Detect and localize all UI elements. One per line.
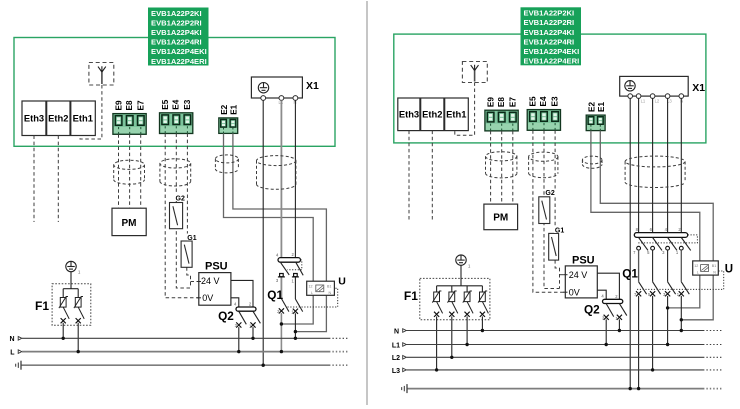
node Q2-N — [251, 337, 254, 340]
surge arrester F1 — [35, 261, 91, 325]
wire X1 PE down to PE bar — [629, 98, 631, 388]
net L busbar — [10, 350, 348, 357]
X1 terminal L1 — [279, 96, 284, 101]
enclosure box (charging station) — [14, 38, 335, 147]
node F1-L1 — [465, 343, 468, 346]
enclosure box (charging station) — [394, 34, 706, 143]
svg-text:4: 4 — [276, 252, 279, 257]
svg-text:E2: E2 — [588, 102, 597, 112]
svg-text:12: 12 — [694, 264, 698, 268]
wire E3 dashed to G1 — [186, 134, 188, 242]
net N busbar — [9, 336, 348, 343]
svg-text:3: 3 — [276, 278, 279, 283]
X1 outlet box — [251, 77, 319, 98]
ferrite ring on E9-E7 cable — [114, 160, 145, 184]
wire Eth2 dashed drop — [431, 131, 433, 221]
antenna (dashed enclosure) — [89, 63, 114, 86]
net N busbar — [394, 328, 723, 335]
wire E1 sense (gray) to Q1 downstream N — [600, 131, 713, 320]
svg-text:EVB1A22P2RI: EVB1A22P2RI — [151, 18, 202, 27]
svg-text:PM: PM — [493, 213, 508, 224]
wire F1 left pole to N bar — [62, 323, 64, 339]
svg-text:G2: G2 — [176, 196, 185, 203]
svg-text:Eth2: Eth2 — [422, 109, 442, 120]
ferrite ring on X1 cable — [257, 156, 296, 190]
node Q2-L — [237, 350, 240, 353]
wire PSU 0V to Q2 — [231, 298, 239, 307]
wire Q2 right pole to N bar — [618, 319, 620, 330]
wire PSU 24V to Q2 — [231, 280, 253, 307]
node F1-N — [481, 329, 484, 332]
transformer G2 — [539, 189, 557, 224]
svg-text:L: L — [10, 350, 15, 357]
wire Q1 right pole to N bar — [294, 313, 296, 338]
wire PSU 24V to Q2 — [597, 273, 619, 299]
svg-text:L: L — [311, 291, 313, 295]
svg-text:L2: L2 — [655, 99, 660, 104]
surge arrester F1 (4-pole) — [404, 255, 490, 320]
svg-text:1: 1 — [291, 279, 294, 284]
wire E7 dashed to PM — [140, 134, 142, 208]
svg-text:Eth3: Eth3 — [399, 109, 419, 120]
X1 outlet box — [620, 76, 706, 96]
wire Q1 pole2 to L3 bar — [652, 296, 654, 370]
svg-text:E5: E5 — [161, 99, 170, 109]
net L2 busbar — [392, 355, 723, 362]
svg-text:L: L — [697, 271, 699, 275]
X1 terminal N — [293, 96, 298, 101]
antenna (dashed enclosure) — [462, 62, 487, 83]
svg-text:2: 2 — [249, 302, 252, 307]
PSU box — [563, 254, 597, 298]
X1 terminal PE — [261, 96, 266, 101]
wire E9 dashed to PM — [490, 131, 492, 204]
net L3 busbar — [392, 368, 723, 375]
wire antenna to Eth1 dashed — [455, 82, 475, 135]
node Q1 pole4 tap — [680, 318, 683, 321]
svg-text:24 V: 24 V — [201, 276, 220, 286]
svg-text:E9: E9 — [114, 100, 123, 110]
svg-text:Eth3: Eth3 — [24, 113, 44, 124]
node Q1 pole4 N — [680, 329, 683, 332]
svg-text:3: 3 — [662, 250, 665, 255]
ferrite ring on E5-E3 cable — [529, 152, 558, 178]
wire Q1 left pole to L bar (gray) — [280, 313, 282, 352]
breaker Q1 (4-pole RCD) — [622, 227, 697, 297]
svg-text:Eth2: Eth2 — [48, 113, 68, 124]
node Q2-N — [618, 329, 621, 332]
model label EVB1A22 list — [521, 7, 582, 65]
wire X1 N down to Q1 — [294, 100, 296, 257]
svg-text:EVB1A22P4KI: EVB1A22P4KI — [151, 28, 202, 37]
svg-text:G1: G1 — [555, 228, 564, 235]
svg-text:U: U — [338, 276, 346, 288]
svg-text:E1: E1 — [597, 102, 606, 112]
svg-text:Eth1: Eth1 — [73, 113, 93, 124]
svg-text:EVB1A22P4RI: EVB1A22P4RI — [524, 37, 575, 46]
wire Q2 left pole to L bar — [238, 327, 240, 352]
wire E1 sense (gray) to Q1 downstream right — [233, 133, 327, 331]
svg-text:E9: E9 — [486, 97, 495, 107]
svg-text:PM: PM — [122, 218, 137, 229]
svg-text:X1: X1 — [306, 80, 319, 92]
model label EVB1A22 list — [148, 8, 209, 66]
wire X1 L2 to Q1 — [652, 98, 654, 232]
svg-text:X1: X1 — [692, 82, 705, 94]
svg-text:EVB1A22P4ERI: EVB1A22P4ERI — [524, 57, 580, 66]
svg-text:PSU: PSU — [572, 254, 595, 266]
svg-text:E2: E2 — [220, 104, 229, 114]
node Q2-L1 — [605, 343, 608, 346]
wire G1 to PSU 24V dashed — [187, 267, 191, 288]
remote control module U — [693, 261, 733, 276]
svg-text:2: 2 — [615, 294, 618, 299]
svg-text:Eth1: Eth1 — [446, 109, 466, 120]
node F1-L3 — [435, 368, 438, 371]
transformer G1 — [549, 226, 567, 260]
wire Eth2 dashed drop — [57, 136, 59, 223]
svg-text:E4: E4 — [539, 96, 548, 106]
wire E9 dashed to PM — [118, 134, 120, 208]
wire antenna to Eth1 dashed — [80, 85, 102, 139]
X1 terminal L1 — [636, 94, 641, 99]
svg-text:Q1: Q1 — [267, 288, 283, 302]
terminal block E9 E8 E7 — [113, 114, 146, 135]
X1 terminal PE — [628, 94, 633, 99]
svg-text:E3: E3 — [551, 96, 560, 106]
node Q1 left tap — [280, 322, 283, 325]
svg-text:4: 4 — [601, 294, 604, 299]
PM box (power meter) — [112, 208, 146, 235]
svg-text:U: U — [725, 264, 733, 276]
node Q1 pole1 PE — [637, 387, 640, 390]
svg-text:PSU: PSU — [205, 261, 228, 273]
node F1-L — [77, 350, 80, 353]
panel divider — [366, 1, 368, 405]
svg-text:N: N — [9, 336, 14, 343]
svg-text:F1: F1 — [35, 299, 49, 313]
node Q1-N — [294, 337, 297, 340]
wire F1 right pole to L bar — [77, 323, 79, 352]
node Q1 pole3 tap — [666, 306, 669, 309]
remote control module U — [307, 276, 346, 296]
wire X1 PE down to PE bar — [262, 100, 264, 365]
svg-text:F1: F1 — [404, 289, 418, 303]
svg-text:L2: L2 — [392, 355, 400, 362]
wire PSU 0V to Q2 — [597, 290, 606, 299]
wire F1 pole3 to L1 bar — [466, 316, 468, 344]
contactor Q2 — [218, 301, 260, 328]
svg-text:E1: E1 — [230, 104, 239, 114]
svg-text:EVB1A22P2RI: EVB1A22P2RI — [524, 18, 575, 27]
wire X1 L1 down to Q1 (gray) — [280, 100, 282, 257]
ferrite ring on X1 cable — [625, 156, 685, 187]
PM box (power meter) — [484, 204, 518, 230]
svg-text:1: 1 — [676, 250, 679, 255]
wire E4 dashed through G2 — [176, 134, 190, 289]
node Q1-L — [280, 350, 283, 353]
svg-text:E4: E4 — [172, 99, 181, 109]
svg-text:N: N — [713, 271, 716, 275]
wire F1 pole2 to L2 bar — [451, 316, 453, 357]
node X1 PE to PE bar — [629, 387, 632, 390]
svg-text:N: N — [394, 328, 399, 335]
transformer G1 — [181, 234, 199, 268]
node F1-L2 — [450, 356, 453, 359]
wire E3 dashed to G1 — [554, 130, 556, 233]
wire E4 dashed through G2 — [544, 130, 560, 288]
node Q1 pole2 L3 — [651, 368, 654, 371]
node PE drop — [262, 364, 265, 367]
svg-text:EVB1A22P4RI: EVB1A22P4RI — [151, 38, 202, 47]
svg-text:EVB1A22P4KI: EVB1A22P4KI — [524, 28, 575, 37]
svg-text:12: 12 — [309, 284, 313, 288]
svg-text:E8: E8 — [497, 97, 506, 107]
Ethernet ports box Eth3 Eth2 Eth1 — [398, 98, 469, 131]
mech link Q1 to U (dotted) — [637, 271, 724, 289]
ground PE busbar — [16, 361, 348, 370]
svg-text:G1: G1 — [187, 235, 196, 242]
wire F1 pole1 to L3 bar — [436, 316, 438, 370]
svg-text:B1: B1 — [712, 264, 716, 268]
svg-text:L3: L3 — [392, 368, 400, 375]
mech link Q1 to U (dotted) — [288, 288, 338, 307]
svg-text:EVB1A22P4ERI: EVB1A22P4ERI — [151, 57, 207, 66]
svg-text:EVB1A22P2KI: EVB1A22P2KI — [524, 9, 575, 18]
wire E7 dashed to PM — [512, 131, 514, 204]
svg-text:0V: 0V — [202, 293, 213, 303]
wire E5 dashed to PSU 0V — [165, 134, 199, 298]
node Q1 right tap — [294, 330, 297, 333]
wire Q1 pole3 to L1 bar — [667, 296, 669, 345]
svg-text:1: 1 — [78, 270, 81, 275]
svg-text:Q2: Q2 — [584, 302, 600, 316]
wire X1 L3 to Q1 — [667, 98, 669, 232]
net L1 busbar — [392, 342, 723, 349]
svg-text:N: N — [329, 291, 332, 295]
wire Q2 right pole to N bar — [252, 327, 254, 338]
wire E2 sense (gray) to Q1 downstream L1 — [591, 131, 700, 308]
svg-text:E5: E5 — [529, 96, 538, 106]
svg-text:4: 4 — [234, 301, 237, 306]
wire G1 to PSU 24V dashed — [555, 260, 559, 288]
svg-text:5: 5 — [647, 250, 650, 255]
svg-text:L1: L1 — [392, 342, 400, 349]
terminal block E2 E1 — [586, 115, 605, 131]
svg-text:1: 1 — [468, 264, 471, 269]
ground PE busbar — [402, 384, 723, 393]
X1 terminal L2 — [650, 94, 655, 99]
wire E2 sense (gray) to Q1 downstream left — [224, 133, 314, 324]
svg-text:E7: E7 — [136, 100, 145, 110]
wire X1 N to Q1 — [680, 98, 682, 232]
wire F1 pole4 to N bar — [481, 316, 483, 330]
Ethernet ports box Eth3 Eth2 Eth1 — [22, 101, 95, 136]
wire Eth3 dashed drop — [33, 136, 35, 223]
svg-text:G2: G2 — [545, 190, 554, 197]
terminal block E5 E4 E3 — [527, 110, 560, 131]
svg-text:2: 2 — [292, 252, 295, 257]
svg-text:E3: E3 — [183, 99, 192, 109]
X1 terminal L3 — [665, 94, 670, 99]
PSU box — [197, 261, 231, 306]
ferrite ring on E2-E1 cable — [582, 156, 602, 168]
svg-text:E7: E7 — [508, 97, 517, 107]
contactor Q2 — [584, 294, 627, 321]
wire X1 L1 to Q1 — [638, 98, 640, 232]
ferrite ring on E9-E7 cable — [486, 152, 517, 178]
X1 terminal N — [679, 94, 684, 99]
wire Q1 pole1 to PE bar — [638, 296, 640, 389]
node F1-N — [62, 337, 65, 340]
wire E8 dashed to PM — [501, 131, 503, 204]
wire Eth3 dashed drop — [408, 131, 410, 221]
svg-text:7: 7 — [633, 250, 636, 255]
svg-text:EVB1A22P2KI: EVB1A22P2KI — [151, 9, 202, 18]
svg-text:L1: L1 — [641, 99, 646, 104]
ferrite ring on E2-E1 cable — [215, 155, 238, 173]
ferrite ring on E5-E3 cable — [160, 159, 191, 186]
terminal block E9 E8 E7 — [485, 110, 518, 131]
svg-text:Q1: Q1 — [622, 267, 638, 281]
svg-text:B1: B1 — [327, 284, 331, 288]
svg-text:Q2: Q2 — [218, 309, 234, 323]
node Q1 pole3 L1 — [666, 343, 669, 346]
wire Q2 left pole to L1 bar — [605, 319, 607, 344]
svg-text:EVB1A22P4EKI: EVB1A22P4EKI — [524, 47, 580, 56]
breaker Q1 (RCD) — [267, 252, 303, 314]
terminal block E2 E1 — [219, 118, 238, 133]
svg-text:0V: 0V — [569, 287, 580, 297]
svg-text:24 V: 24 V — [569, 270, 588, 280]
svg-text:EVB1A22P4EKI: EVB1A22P4EKI — [151, 47, 207, 56]
svg-text:E8: E8 — [125, 100, 134, 110]
wire E5 dashed to PSU 0V — [533, 130, 565, 292]
transformer G2 — [170, 194, 187, 229]
wire Q1 pole4 to N bar — [680, 296, 682, 331]
wire E8 dashed to PM — [129, 134, 131, 208]
terminal block E5 E4 E3 — [160, 113, 193, 134]
